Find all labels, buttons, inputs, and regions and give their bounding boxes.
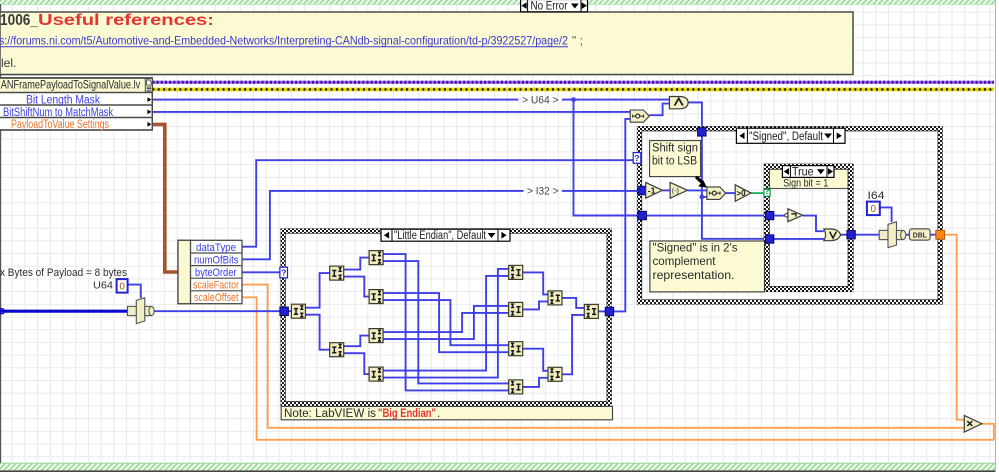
svg-text:?: ? (281, 267, 286, 277)
svg-text:> U64 >: > U64 > (522, 94, 559, 106)
svg-text:Max Bytes of Payload = 8 bytes: Max Bytes of Payload = 8 bytes (0, 267, 127, 279)
svg-text:Shift sign: Shift sign (652, 142, 698, 154)
svg-text:"Big Endian": "Big Endian" (378, 408, 436, 420)
svg-text:"Signed" is in 2's: "Signed" is in 2's (653, 241, 738, 255)
svg-text:byteOrder: byteOrder (195, 267, 237, 279)
svg-text:Bit Length Mask: Bit Length Mask (26, 94, 100, 106)
svg-text:lel.: lel. (1, 56, 16, 70)
svg-text:Sign bit = 1: Sign bit = 1 (783, 177, 828, 189)
svg-text:-1: -1 (648, 185, 656, 195)
svg-text:?: ? (764, 186, 769, 196)
svg-text:" ;: " ; (572, 34, 583, 48)
svg-text:PayloadToValue Settings: PayloadToValue Settings (11, 119, 109, 131)
svg-text:Note: LabVIEW is: Note: LabVIEW is (284, 408, 376, 420)
svg-text:> I32 >: > I32 > (527, 186, 559, 198)
svg-text:(-): (-) (672, 188, 679, 195)
svg-text:.: . (437, 408, 440, 420)
svg-text:"Signed", Default: "Signed", Default (749, 131, 824, 143)
svg-text:DBL: DBL (913, 230, 927, 239)
svg-text:complement: complement (653, 254, 717, 268)
svg-text:ANFramePayloadToSignalValue.lv: ANFramePayloadToSignalValue.lv (1, 78, 140, 92)
svg-text:representation.: representation. (653, 268, 735, 282)
svg-text:I64: I64 (868, 190, 885, 202)
svg-text:BitShiftNum to MatchMask: BitShiftNum to MatchMask (3, 107, 113, 119)
svg-text:Useful references:: Useful references: (38, 12, 214, 29)
svg-text:numOfBits: numOfBits (194, 254, 239, 266)
svg-text:scaleFactor: scaleFactor (193, 280, 239, 292)
svg-text:No Error: No Error (531, 1, 568, 13)
svg-text:scaleOffset: scaleOffset (194, 292, 239, 304)
svg-text:bit to LSB: bit to LSB (652, 155, 697, 167)
svg-text:"Little Endian", Default: "Little Endian", Default (394, 230, 487, 242)
svg-text:tps://forums.ni.com/t5/Automot: tps://forums.ni.com/t5/Automotive-and-Em… (0, 34, 568, 48)
svg-text:dataType: dataType (196, 242, 236, 254)
svg-text:U64: U64 (93, 280, 113, 292)
svg-text:0: 0 (871, 204, 877, 215)
svg-text:?: ? (634, 153, 639, 163)
svg-text:>0: >0 (736, 189, 746, 198)
svg-text:0: 0 (119, 282, 125, 293)
svg-text:1006_: 1006_ (0, 12, 38, 29)
